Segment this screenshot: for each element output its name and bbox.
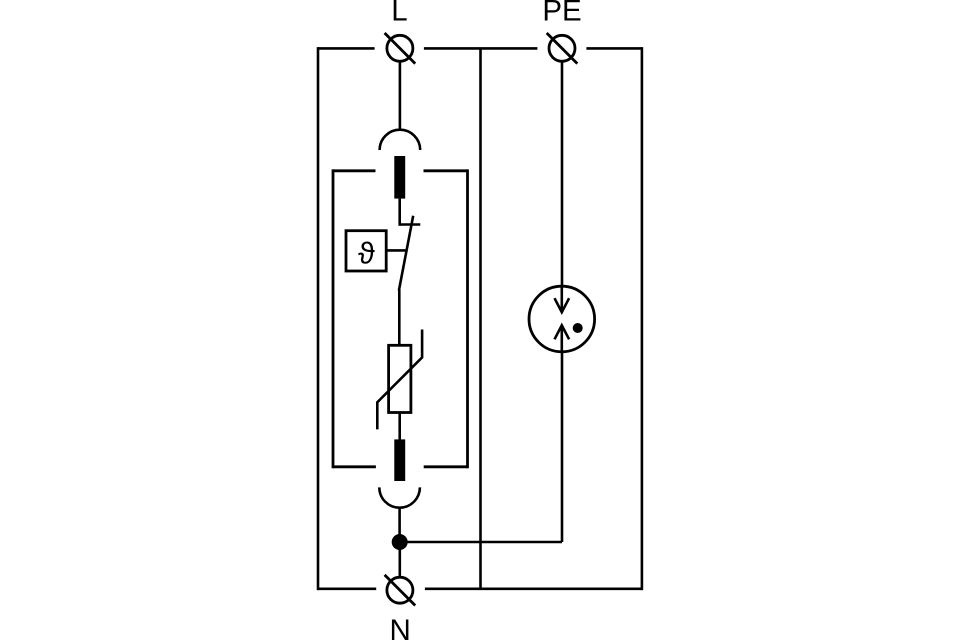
plug-in disconnection arc top bbox=[380, 130, 421, 150]
wire bar to switch bbox=[398, 199, 401, 226]
svg-text:ϑ: ϑ bbox=[358, 236, 375, 270]
wire varistor to bottom bar bbox=[398, 413, 401, 441]
svg-text:N: N bbox=[390, 614, 411, 640]
varistor body bbox=[389, 345, 411, 412]
divider wire bbox=[479, 48, 482, 588]
spark gap circle bbox=[529, 286, 595, 352]
inner assembly box right edge bbox=[466, 169, 469, 468]
enclosure bottom edge bbox=[318, 587, 642, 590]
spark gap bottom electrode bbox=[555, 325, 570, 352]
thermal sensor box bbox=[346, 231, 386, 271]
switch fixed contact bbox=[400, 223, 421, 226]
electrode bar top bbox=[394, 156, 405, 199]
wire node to PE branch bbox=[400, 541, 562, 544]
terminal L bbox=[385, 33, 416, 64]
inner assembly box top edge bbox=[333, 169, 468, 172]
varistor diagonal bbox=[377, 330, 422, 430]
wire arc to node bbox=[398, 508, 401, 542]
wire blade to varistor bbox=[398, 290, 401, 347]
spark gap top electrode bbox=[555, 286, 570, 312]
trigger dot bbox=[573, 323, 583, 333]
node junction dot bbox=[392, 534, 408, 550]
svg-text:PE: PE bbox=[542, 0, 581, 28]
wire node to N terminal bbox=[398, 542, 401, 577]
enclosure top edge bbox=[318, 47, 642, 50]
wire L terminal to plug arc bbox=[399, 61, 402, 130]
terminal PE bbox=[547, 33, 578, 64]
switch blade bbox=[399, 216, 413, 291]
terminal N bbox=[385, 575, 416, 606]
wire PE terminal to spark gap bbox=[561, 61, 564, 287]
enclosure left edge bbox=[317, 47, 320, 590]
electrode bar bottom bbox=[394, 439, 405, 481]
plug-in disconnection arc bottom bbox=[379, 487, 420, 507]
wire spark gap to node wire bbox=[561, 352, 564, 542]
inner assembly box bottom edge bbox=[333, 465, 468, 468]
inner assembly box left edge bbox=[332, 169, 335, 468]
wire sensor to blade bbox=[386, 249, 407, 252]
enclosure right edge bbox=[641, 47, 644, 590]
svg-text:L: L bbox=[391, 0, 407, 28]
